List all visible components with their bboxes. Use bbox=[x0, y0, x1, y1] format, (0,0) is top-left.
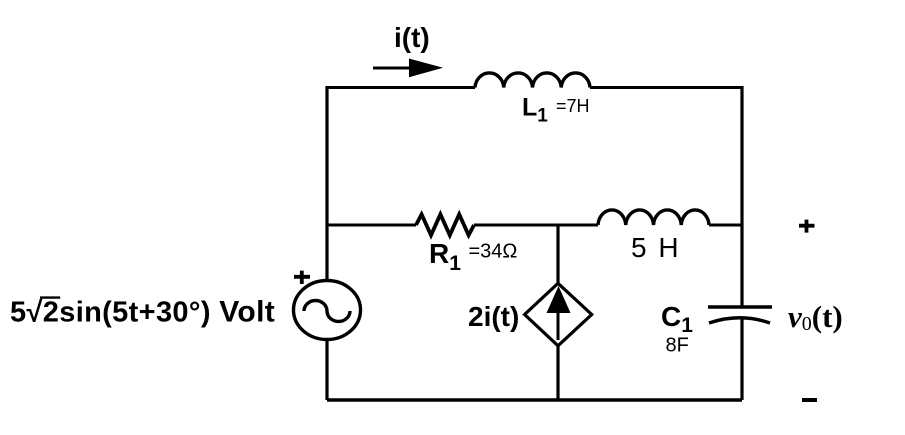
wire left vertical lower bbox=[325, 340, 328, 401]
svg-text:8F: 8F bbox=[666, 335, 689, 357]
wire right vertical upper bbox=[740, 86, 743, 306]
svg-text:i(t): i(t) bbox=[394, 22, 430, 53]
svg-text:=34Ω: =34Ω bbox=[469, 241, 518, 263]
resistor R1 bbox=[416, 214, 474, 235]
inductor L1 bbox=[475, 73, 590, 88]
sqrt overbar bbox=[40, 296, 60, 298]
wire right vertical lower bbox=[740, 317, 743, 400]
wire top-right horizontal segment bbox=[590, 86, 742, 89]
current arrow i(t) bbox=[373, 67, 412, 70]
voltage source V1 bbox=[294, 281, 361, 340]
dependent source arrow bbox=[557, 310, 560, 340]
wire left vertical upper bbox=[325, 86, 328, 281]
plus sign at output bbox=[799, 220, 815, 233]
wire top-left horizontal segment bbox=[327, 86, 475, 89]
inductor L2 5H bbox=[598, 210, 709, 225]
svg-text:5√2sin(5t+30°) Volt: 5√2sin(5t+30°) Volt bbox=[10, 296, 275, 329]
capacitor C1 top plate bbox=[708, 305, 772, 308]
svg-text:L1: L1 bbox=[522, 94, 548, 127]
svg-text:=7H: =7H bbox=[556, 96, 590, 116]
svg-text:2i(t): 2i(t) bbox=[468, 301, 519, 332]
wire junction to dependent source bbox=[556, 225, 559, 284]
dependent current source U1 diamond bbox=[525, 283, 592, 346]
wire middle center segment bbox=[474, 224, 598, 227]
wire middle left segment bbox=[327, 224, 416, 227]
svg-text:5 H: 5 H bbox=[631, 232, 681, 263]
wire dependent source to bottom bbox=[556, 346, 559, 400]
capacitor C1 bottom curved plate bbox=[709, 318, 770, 323]
wire bottom horizontal bbox=[327, 398, 742, 401]
minus sign at output bbox=[802, 398, 817, 402]
wire middle right segment bbox=[709, 224, 742, 227]
svg-text:C1: C1 bbox=[661, 301, 693, 337]
svg-text:v0(t): v0(t) bbox=[788, 299, 843, 335]
svg-text:R1: R1 bbox=[429, 238, 461, 275]
plus sign at source bbox=[294, 271, 310, 284]
